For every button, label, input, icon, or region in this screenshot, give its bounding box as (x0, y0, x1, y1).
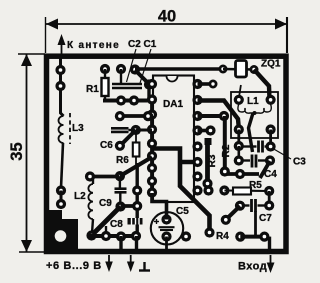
svg-text:C7: C7 (259, 213, 272, 224)
node pad (132, 201, 142, 211)
svg-text:C2 C1: C2 C1 (128, 39, 157, 50)
DA1 pin pad left 5 (147, 138, 157, 148)
wire pin3 (198, 114, 225, 118)
node pad (116, 95, 126, 105)
wire C6 to pad (129, 129, 136, 131)
IC DA1 body (153, 76, 194, 203)
wire (147, 85, 150, 101)
node L1 pad bottom-right (266, 124, 276, 134)
node antenna pad 1 (55, 65, 65, 75)
svg-text:Вход: Вход (238, 261, 267, 273)
capacitor C7 (268, 191, 271, 206)
node L1 pad top-left (234, 95, 244, 105)
resistor R1 (100, 64, 110, 74)
svg-text:ZQ1: ZQ1 (261, 59, 281, 70)
DA1 pin pad right 5 (192, 141, 202, 151)
wire junction to C8 column (121, 204, 138, 208)
node pad (204, 227, 214, 237)
row y174 (225, 172, 259, 176)
leader C1 (140, 49, 151, 83)
wire C8 junction up (105, 226, 107, 236)
svg-text:+6 В...9 В: +6 В...9 В (46, 260, 102, 272)
ground symbol (139, 262, 150, 271)
DA1 pin pad left 4 (147, 124, 157, 134)
node antenna pad 2 (55, 81, 65, 91)
coil L1 drawing (238, 104, 271, 113)
input arrow (270, 255, 272, 266)
svg-text:R6: R6 (116, 155, 129, 166)
svg-text:DA1: DA1 (163, 99, 183, 110)
bottom supply row (88, 234, 140, 238)
inductor L2 (88, 177, 93, 234)
antenna arrow (61, 40, 63, 56)
svg-text:C8: C8 (110, 219, 123, 230)
wire thin stub to L1 pad (239, 85, 241, 96)
DA1 pin pad left 7 (147, 163, 157, 173)
ground arrow (130, 255, 132, 266)
svg-text:R4: R4 (216, 231, 229, 242)
resistor R4 row (181, 231, 191, 241)
wire R3 column (223, 116, 227, 170)
svg-text:40: 40 (158, 8, 176, 26)
DA1 pin pad left 1 (147, 79, 157, 89)
wire horizontal to L2 top (90, 175, 119, 179)
wire (120, 69, 122, 83)
wire pin to stub (198, 82, 214, 86)
node pad (56, 199, 66, 209)
node L1 pad bottom-left (234, 124, 244, 134)
svg-text:C5: C5 (176, 206, 189, 217)
DA1 pin pad right 6 (192, 157, 202, 167)
wire C5 stubs (165, 237, 168, 251)
wire long top trace (135, 67, 223, 71)
svg-text:R3: R3 (207, 154, 218, 167)
trace under DA1 (151, 149, 210, 232)
wire C8 column vertical (135, 163, 138, 236)
wire stubs to frame (119, 236, 122, 254)
node pad (86, 230, 96, 240)
svg-text:C6: C6 (100, 140, 113, 151)
capacitor C6 (111, 127, 129, 130)
DA1 pin pad left 9 (147, 187, 157, 197)
node pad (130, 64, 140, 74)
dimension 35 left (18, 54, 45, 252)
capacitor C5 electrolytic (151, 212, 183, 244)
shield box L1 (231, 92, 278, 138)
wire diag right (260, 161, 270, 178)
wire C7 down (254, 211, 257, 236)
DA1 pin pad right 1 (192, 79, 202, 89)
resistor R6 (133, 143, 140, 157)
DA1 pin pad right 3 (192, 111, 202, 121)
arrowhead left of 40 (46, 19, 58, 30)
DA1 pin pad left 3 (147, 109, 157, 119)
capacitor C4 (238, 146, 241, 161)
wire horizontal row (103, 99, 153, 103)
wire (60, 191, 63, 205)
inductor L3 (59, 113, 71, 144)
arrowhead bottom of 35 (21, 240, 32, 252)
DA1 pin pad right 2 (192, 95, 202, 105)
arrowhead top of 35 (21, 54, 32, 66)
svg-text:35: 35 (8, 142, 26, 160)
wire diag C6 pad down-left (120, 130, 136, 146)
node pad (132, 185, 142, 195)
capacitor C9 (115, 171, 125, 181)
node pad (116, 64, 126, 74)
wire pin4 (198, 129, 211, 133)
node junction pad (115, 201, 125, 211)
wire diagonal pin to C9 pad (120, 157, 152, 176)
node L1 pad top-right (266, 95, 276, 105)
svg-text:R1: R1 (86, 84, 99, 95)
svg-text:C3: C3 (293, 157, 306, 168)
svg-text:К антене: К антене (67, 40, 120, 51)
leader C3 (272, 148, 291, 159)
wire L1 pad to C3 pad (237, 130, 240, 147)
wire antenna vertical (61, 58, 64, 116)
svg-text:L1: L1 (247, 96, 259, 107)
arrowhead right of 40 (275, 19, 287, 30)
dimension 40 top (46, 17, 288, 53)
wire diagonal ZQ1 to L1 (254, 70, 270, 100)
row y116 (116, 114, 153, 118)
square pad + R3 trace (205, 138, 212, 145)
board frame (47, 56, 287, 251)
wire spur to right pin (180, 160, 197, 165)
capacitor C1 C2 bars (112, 84, 142, 88)
wire pin2 to L1 (198, 101, 239, 129)
wire L3 to pads (61, 143, 63, 188)
DA1 pin pad left 8 (147, 176, 157, 186)
node pad (129, 95, 139, 105)
svg-text:L2: L2 (74, 191, 86, 202)
wire diagonal to DA1 pin1 (135, 70, 149, 84)
crystal ZQ1 (219, 65, 228, 74)
DA1 pin pad left 6 (147, 151, 157, 161)
svg-text:L3: L3 (72, 123, 84, 134)
wire long diagonal (92, 207, 121, 236)
mounting square (45, 210, 78, 249)
wire diag C7 to pad (226, 206, 240, 220)
DA1 pin pad right 4 (192, 125, 202, 135)
DA1 pin pad right 8 (192, 185, 202, 195)
capacitor C3 (243, 145, 257, 147)
svg-text:C9: C9 (99, 198, 112, 209)
wire input down (268, 237, 271, 254)
DA1 pin pad left 2 (147, 94, 157, 104)
wire L1 center to C4 (249, 113, 254, 152)
leader C2 (127, 49, 137, 82)
supply arrow (108, 255, 110, 266)
node pad (56, 185, 66, 195)
node pad (144, 79, 154, 89)
wire left pin bus (150, 96, 154, 193)
DA1 pin pad right 7 (192, 171, 202, 181)
